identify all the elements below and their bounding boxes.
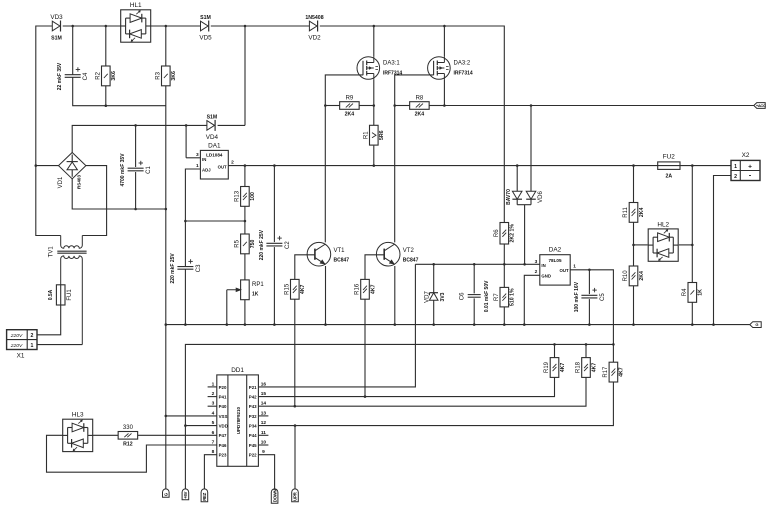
junction R1 bottom on bus xyxy=(373,164,376,167)
net tag bottom 3 xyxy=(201,489,208,502)
transformer TV1 xyxy=(48,236,86,345)
svg-text:R8: R8 xyxy=(416,95,424,101)
wire VT2 base to R16 xyxy=(365,255,384,280)
net tag bottom 4 xyxy=(271,489,278,503)
MOSFET DA3:1 xyxy=(357,57,402,80)
resistor R7 xyxy=(494,287,516,307)
wire R7 leads xyxy=(503,264,505,324)
svg-text:9: 9 xyxy=(262,449,265,455)
junction ground rail / bridge minus xyxy=(165,208,168,211)
wire FU1 to X1 pin2 xyxy=(37,305,61,335)
wire C5 leads xyxy=(588,270,590,325)
wire bridge minus row xyxy=(72,179,166,209)
svg-text:UPD78F9210: UPD78F9210 xyxy=(236,406,241,434)
wire X2 pin2 to ground bus xyxy=(714,176,732,325)
junction R13 bottom R5 top xyxy=(244,220,247,223)
svg-text:DA1: DA1 xyxy=(208,142,221,149)
svg-text:4K7: 4K7 xyxy=(370,284,376,294)
svg-text:BC847: BC847 xyxy=(334,258,350,264)
wire DA3:1 source to R1 xyxy=(373,79,375,125)
svg-text:10: 10 xyxy=(261,440,267,446)
fuse FU1 xyxy=(48,285,73,305)
svg-text:VD4: VD4 xyxy=(206,134,219,141)
svg-text:3K6: 3K6 xyxy=(171,71,177,81)
junction C4 top xyxy=(71,25,74,28)
wire C6 leads xyxy=(473,264,475,324)
wire R6 bottom lead xyxy=(503,244,505,264)
wire C4 top lead xyxy=(72,26,74,75)
svg-text:12: 12 xyxy=(261,420,267,426)
svg-text:P45: P45 xyxy=(249,443,257,448)
junction P34 tag drop xyxy=(294,424,297,427)
svg-text:S1M: S1M xyxy=(51,36,62,42)
wire R8 left lead xyxy=(395,105,410,107)
wire DA2 GND to ground bus xyxy=(524,275,540,324)
svg-text:R3: R3 xyxy=(156,71,162,79)
junction C5 ground xyxy=(588,323,591,326)
svg-text:2: 2 xyxy=(734,174,737,180)
wire DA2 OUT +5V xyxy=(570,270,613,362)
svg-text:1: 1 xyxy=(573,264,576,270)
svg-text:+5V: +5V xyxy=(183,491,188,498)
capacitor C2 xyxy=(259,229,291,260)
svg-text:HL3: HL3 xyxy=(72,412,84,419)
svg-text:P22: P22 xyxy=(249,453,257,458)
junction R3 top xyxy=(165,25,168,28)
resistor R6 xyxy=(494,223,516,245)
dual diode VD6 xyxy=(506,189,544,205)
DD1 pin stubs right 13 11 10 xyxy=(258,416,268,445)
svg-text:330: 330 xyxy=(123,425,134,431)
diode VD5 xyxy=(199,15,212,42)
svg-text:R6: R6 xyxy=(494,229,500,237)
svg-text:4700 mkF 35V: 4700 mkF 35V xyxy=(120,153,126,187)
svg-text:14: 14 xyxy=(261,401,267,407)
svg-text:100 mkF 16V: 100 mkF 16V xyxy=(574,281,580,312)
resistor R12 xyxy=(118,425,137,447)
connector X2 xyxy=(731,152,760,181)
svg-text:3: 3 xyxy=(212,401,215,407)
wire DD1 P46 loop to HL3 left xyxy=(47,435,217,472)
wire R9 left lead xyxy=(325,105,339,107)
svg-text:IN: IN xyxy=(541,263,545,268)
wire X1 pin1 to primary right xyxy=(37,344,82,346)
net tag +ACC xyxy=(754,103,766,109)
svg-text:0.5A: 0.5A xyxy=(48,289,54,300)
svg-text:220V: 220V xyxy=(10,333,23,339)
svg-text:VD3: VD3 xyxy=(50,14,63,21)
wire DA3:1 drain lead xyxy=(373,26,375,57)
wire R1 bottom lead xyxy=(373,146,375,166)
wire C2 leads xyxy=(273,166,275,325)
svg-text:8: 8 xyxy=(212,449,215,455)
wire DD1 VSS to ground rail xyxy=(166,415,217,417)
svg-text:R5: R5 xyxy=(235,239,241,247)
wire bridge AC right to secondary right xyxy=(82,166,106,236)
svg-text:R19: R19 xyxy=(544,361,550,373)
wire R2 top lead xyxy=(105,26,107,66)
junction R9 right / DA3:1 source xyxy=(373,104,376,107)
svg-text:2K4: 2K4 xyxy=(415,112,425,118)
svg-text:BC847: BC847 xyxy=(403,258,419,264)
junction R9 left xyxy=(324,104,327,107)
svg-text:R17: R17 xyxy=(603,366,609,378)
svg-text:DD1: DD1 xyxy=(231,367,244,374)
svg-text:C3: C3 xyxy=(196,264,202,272)
svg-text:P42: P42 xyxy=(249,395,257,400)
junction R10 ground xyxy=(632,323,635,326)
junction R19 top xyxy=(553,343,556,346)
wire DA1 IN pin xyxy=(186,157,200,159)
junction ground rail / DD1 VSS xyxy=(165,415,168,418)
junction R13 top on bus xyxy=(244,164,247,167)
svg-text:P41: P41 xyxy=(219,395,227,400)
capacitor C5 xyxy=(574,281,606,312)
svg-text:VD1: VD1 xyxy=(58,176,64,188)
svg-text:220 mkF 25V: 220 mkF 25V xyxy=(259,229,265,260)
svg-text:2: 2 xyxy=(231,160,234,166)
svg-text:DA3:2: DA3:2 xyxy=(454,61,471,67)
svg-text:4K7: 4K7 xyxy=(591,363,597,373)
junction C1 bottom xyxy=(134,208,137,211)
svg-text:S1M: S1M xyxy=(207,114,218,120)
svg-text:R2: R2 xyxy=(96,71,102,79)
junction VDD pin5 xyxy=(184,424,187,427)
junction VD4 rail top xyxy=(244,25,247,28)
svg-text:6: 6 xyxy=(212,430,215,436)
svg-text:DA2: DA2 xyxy=(549,247,562,254)
svg-text:1: 1 xyxy=(734,164,737,170)
potentiometer RP1 xyxy=(227,280,265,300)
resistor R5 xyxy=(235,234,257,254)
svg-text:IRF7314: IRF7314 xyxy=(454,71,473,77)
resistor R19 xyxy=(544,358,566,378)
capacitor C6 xyxy=(460,280,490,312)
net tag G right xyxy=(750,322,761,328)
svg-text:P40: P40 xyxy=(219,404,227,409)
wire bridge AC left branch xyxy=(36,165,59,167)
wire DD1 P23 to tag xyxy=(204,455,216,490)
junction ground rail / ground bus xyxy=(165,323,168,326)
junction C3 ground xyxy=(184,323,187,326)
svg-text:100: 100 xyxy=(250,192,256,201)
wire VT2 emitter xyxy=(394,266,396,325)
junction RP1 wiper ground xyxy=(226,323,229,326)
junction R7 ground xyxy=(503,323,506,326)
junction DA2 GND ground xyxy=(523,323,526,326)
svg-text:R12: R12 xyxy=(123,441,133,447)
svg-text:OUT: OUT xyxy=(560,268,569,273)
svg-text:0.01 mkF 50V: 0.01 mkF 50V xyxy=(484,280,490,312)
resistor R17 xyxy=(603,362,625,382)
wire R10 bottom lead xyxy=(633,286,635,325)
wire R2 bottom lead xyxy=(105,86,107,106)
svg-text:GND: GND xyxy=(541,273,551,278)
svg-text:1: 1 xyxy=(196,163,199,169)
svg-text:VT1: VT1 xyxy=(334,248,346,254)
connector X1 xyxy=(7,330,37,360)
svg-text:5R6: 5R6 xyxy=(379,130,385,140)
svg-text:15: 15 xyxy=(261,391,267,397)
svg-text:FU2: FU2 xyxy=(663,154,676,161)
microcontroller DD1 xyxy=(212,367,267,466)
transistor VT2 xyxy=(376,242,418,266)
svg-text:2K4: 2K4 xyxy=(345,112,355,118)
svg-text:16: 16 xyxy=(261,381,267,387)
svg-text:P34: P34 xyxy=(249,424,257,429)
junction R16 on P42 wire xyxy=(364,395,367,398)
svg-text:P47: P47 xyxy=(219,433,227,438)
wire DA3:2 source lead xyxy=(443,79,445,105)
wire DD1 VDD to +5V xyxy=(185,425,216,427)
junction C6 ground xyxy=(473,323,476,326)
wire RP1 wiper drop xyxy=(226,290,228,325)
wire DD1 P47 to R12 xyxy=(138,434,217,436)
bridge rectifier VD1 xyxy=(58,153,86,190)
wire C1 leads xyxy=(135,125,137,209)
svg-text:5: 5 xyxy=(212,420,215,426)
wire VD6 common cathode xyxy=(517,199,531,264)
svg-text:LD1084: LD1084 xyxy=(206,153,223,158)
junction VD6 left on bus xyxy=(516,164,519,167)
wire C3 bottom lead xyxy=(184,269,186,324)
fuse FU2 xyxy=(658,154,680,180)
svg-text:VDD: VDD xyxy=(219,424,228,429)
svg-text:2K4: 2K4 xyxy=(639,208,645,218)
svg-text:VD2: VD2 xyxy=(308,35,321,42)
net tag bottom 5 xyxy=(292,489,299,502)
MOSFET DA3:2 xyxy=(428,57,473,80)
zener VD7 xyxy=(424,291,446,303)
wire bridge plus to VD4 anode xyxy=(72,125,207,152)
svg-text:VSS: VSS xyxy=(219,414,228,419)
resistor R18 xyxy=(576,358,598,378)
svg-text:22 mkF 35V: 22 mkF 35V xyxy=(57,62,63,90)
svg-text:R9: R9 xyxy=(346,95,354,101)
svg-text:3: 3 xyxy=(196,152,199,158)
svg-text:P32: P32 xyxy=(249,414,257,419)
svg-text:4K7: 4K7 xyxy=(300,284,306,294)
capacitor C4 xyxy=(57,62,89,90)
junction VT2 emitter ground xyxy=(394,323,397,326)
wire R4 bottom lead xyxy=(691,302,693,324)
junction R2 bottom xyxy=(105,104,108,107)
junction ADJ / R13-R5 node xyxy=(184,220,187,223)
resistor R4 xyxy=(682,283,704,303)
svg-text:R16: R16 xyxy=(355,283,361,295)
svg-text:C6: C6 xyxy=(460,292,466,300)
wire DA3:2 gate corner / VT2 collector line xyxy=(395,75,434,243)
wire DA1 ADJ pin to C3 rail xyxy=(185,169,200,267)
wire HL2 left lead xyxy=(634,244,648,246)
diode VD4 xyxy=(206,114,219,141)
wire R19 leads xyxy=(258,344,554,396)
svg-text:HL1: HL1 xyxy=(130,2,142,9)
wire +5V line to DD1 VDD xyxy=(185,344,613,489)
junction HL2 left xyxy=(632,244,635,247)
junction R8 left xyxy=(393,104,396,107)
svg-text:+: + xyxy=(748,163,752,170)
svg-text:G: G xyxy=(755,322,758,327)
svg-text:4K7: 4K7 xyxy=(619,367,625,377)
wire DA1 IN vertical xyxy=(185,125,187,157)
svg-text:HL2: HL2 xyxy=(657,221,669,228)
junction VD7 ground xyxy=(432,323,435,326)
svg-text:1: 1 xyxy=(31,343,34,349)
svg-text:2K2 1%: 2K2 1% xyxy=(510,224,516,243)
junction left rail / bridge AC xyxy=(35,164,38,167)
junction R18 top xyxy=(585,343,588,346)
svg-text:2: 2 xyxy=(31,333,34,339)
resistor R16 xyxy=(355,279,377,299)
regulator DA2 xyxy=(535,247,577,286)
svg-text:3K6: 3K6 xyxy=(111,71,117,81)
wire DD1 P22 to tag xyxy=(258,455,274,490)
svg-text:78L05: 78L05 xyxy=(548,258,561,263)
svg-text:P43: P43 xyxy=(249,404,257,409)
junction VD6 right drop xyxy=(530,104,533,107)
wire R5 leads xyxy=(244,221,246,280)
junction R8 right / DA3:2 source xyxy=(443,104,446,107)
svg-text:IRF7314: IRF7314 xyxy=(383,71,402,77)
transistor VT1 xyxy=(307,242,349,266)
svg-text:REZ: REZ xyxy=(202,492,207,500)
svg-text:3: 3 xyxy=(535,259,538,265)
svg-text:11: 11 xyxy=(261,430,266,436)
svg-text:DA3:1: DA3:1 xyxy=(383,61,400,67)
LED pair HL2 xyxy=(648,221,678,261)
resistor R15 xyxy=(285,279,307,299)
svg-text:R1: R1 xyxy=(364,131,370,139)
wire ADJ node to R13 bottom xyxy=(185,220,245,222)
svg-text:C2: C2 xyxy=(285,241,291,249)
svg-text:C4: C4 xyxy=(83,72,89,80)
wire VD6 left lead xyxy=(516,166,518,192)
wire VD5 cathode to VD2 anode xyxy=(211,25,310,27)
svg-text:X1: X1 xyxy=(17,352,25,359)
resistor R11 xyxy=(623,203,645,223)
wire R16 bottom to DD1 P42 wire xyxy=(364,299,366,396)
DD1 pin stubs left 1-3 xyxy=(208,387,217,406)
wire VD7 leads xyxy=(433,264,435,324)
junction VT1 emitter ground xyxy=(324,323,327,326)
net tag G bottom 1 xyxy=(163,489,170,497)
svg-text:2: 2 xyxy=(535,269,538,275)
junction R15 on P43 wire xyxy=(294,405,297,408)
svg-text:P44: P44 xyxy=(249,433,257,438)
svg-text:VD5: VD5 xyxy=(199,35,212,42)
svg-text:R15: R15 xyxy=(285,283,291,295)
junction R11 top on bus xyxy=(632,164,635,167)
wire VD6 right vertical xyxy=(530,106,532,192)
svg-text:C1: C1 xyxy=(146,166,152,174)
wire VD4 cathode to rail xyxy=(218,124,245,126)
wire R8 right lead xyxy=(429,105,444,107)
capacitor C1 xyxy=(120,153,152,187)
junction R4 rail on bus xyxy=(691,164,694,167)
regulator DA1 xyxy=(196,142,234,179)
svg-text:UPR: UPR xyxy=(293,491,298,500)
wire sense node to DD1 P21 xyxy=(258,264,415,387)
wire R13 leads xyxy=(244,166,246,221)
wire R4 rail xyxy=(691,166,693,283)
resistor R2 xyxy=(96,66,118,86)
svg-text:P21: P21 xyxy=(249,385,257,390)
svg-text:VD7: VD7 xyxy=(424,291,430,303)
svg-text:1K: 1K xyxy=(698,289,704,296)
resistor R8 xyxy=(410,95,430,117)
svg-text:ADJ: ADJ xyxy=(202,168,211,173)
junction VD6 common cathode on sense xyxy=(523,263,526,266)
junction C1 top xyxy=(134,124,137,127)
svg-text:220V: 220V xyxy=(10,343,23,349)
diode VD2 xyxy=(305,15,323,42)
wire main output bus DA1 OUT to X2 pin1 xyxy=(228,165,731,167)
svg-text:1N5408: 1N5408 xyxy=(305,15,323,21)
wire VD4 rail xyxy=(244,26,246,125)
wire R3 top lead xyxy=(165,26,167,66)
svg-text:220 mkF 25V: 220 mkF 25V xyxy=(170,253,176,284)
svg-text:2A: 2A xyxy=(665,174,672,180)
junction X2 minus ground xyxy=(712,323,715,326)
LED pair HL3 xyxy=(63,412,93,452)
wire RP1 bottom lead xyxy=(244,300,246,325)
svg-text:RP1: RP1 xyxy=(252,282,264,288)
svg-text:3V3: 3V3 xyxy=(440,292,446,301)
wire R18 leads xyxy=(258,344,586,406)
svg-text:VD6: VD6 xyxy=(538,191,544,203)
wire R9 right lead xyxy=(359,105,374,107)
svg-text:P46: P46 xyxy=(219,443,227,448)
junction R4 ground xyxy=(691,323,694,326)
resistor R10 xyxy=(623,266,645,286)
svg-text:750: 750 xyxy=(250,239,256,248)
svg-text:IN: IN xyxy=(202,157,206,162)
svg-text:R18: R18 xyxy=(576,361,582,373)
LED pair HL1 xyxy=(121,2,151,42)
wire R11 top lead xyxy=(633,166,635,203)
svg-text:P20: P20 xyxy=(219,385,227,390)
wire sense node row xyxy=(415,263,539,265)
svg-text:R13: R13 xyxy=(235,190,241,202)
svg-text:2: 2 xyxy=(212,391,215,397)
wire VT1 base to R15 xyxy=(295,255,315,280)
junction C5 top xyxy=(588,269,591,272)
wire ACC line to tag xyxy=(444,105,753,107)
svg-text:4K7: 4K7 xyxy=(560,363,566,373)
wire VD2 cathode to R6 rail xyxy=(320,26,505,223)
wire R15 bottom to DD1 P43 wire xyxy=(294,299,296,406)
junction +5V branch xyxy=(612,343,615,346)
junction R2 top xyxy=(105,25,108,28)
junction DA1 IN drop xyxy=(185,124,188,127)
svg-text:13: 13 xyxy=(261,410,267,416)
wire HL2 right lead xyxy=(679,244,692,246)
svg-text:1K: 1K xyxy=(252,291,259,297)
svg-text:X2: X2 xyxy=(742,152,750,159)
wire VD3 cathode to HL1 left xyxy=(63,25,121,27)
wire DA3:1 gate corner / VT1 collector line xyxy=(325,75,363,243)
junction HL2 right / R4 rail xyxy=(691,244,694,247)
resistor R3 xyxy=(156,66,178,86)
resistor R1 xyxy=(364,125,386,145)
net tag +5V bottom 2 xyxy=(182,489,189,500)
svg-text:BAV70: BAV70 xyxy=(506,189,512,205)
wire R3 bottom lead / ground rail xyxy=(165,86,167,490)
svg-text:S1M: S1M xyxy=(200,15,211,21)
wire DA3:2 drain lead xyxy=(443,26,445,57)
junction RP1 bottom ground xyxy=(244,323,247,326)
